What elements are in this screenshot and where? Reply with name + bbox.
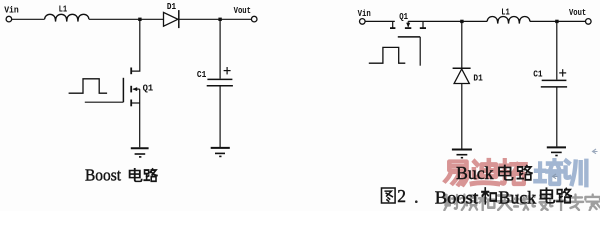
diode D1 (left)	[164, 10, 179, 28]
capacitor C1 (left, electrolytic)	[207, 67, 233, 86]
paragraph mark (gray, right edge)	[593, 149, 598, 154]
wire L1 to Vout (right)	[530, 20, 586, 22]
wire C1 to ground (right)	[556, 87, 558, 146]
svg-text:C1: C1	[533, 70, 543, 80]
terminal Vin (left circuit)	[6, 16, 12, 22]
square wave drive signal (left)	[69, 79, 108, 93]
wire D1 to ground (right)	[461, 84, 463, 149]
ground under C1 (right)	[547, 147, 566, 155]
wire output node to C1 (right)	[556, 21, 558, 79]
caption Boost 电路 (left)	[85, 166, 157, 185]
wire output node to C1 (left)	[219, 19, 221, 78]
inductor L1 (left)	[45, 14, 89, 21]
svg-text:Boost: Boost	[85, 166, 121, 185]
svg-text:D1: D1	[473, 74, 483, 84]
wire C1 to ground (left)	[219, 86, 221, 147]
wire junction to D1 (right)	[461, 21, 463, 68]
wire gate lead (left Q1)	[85, 101, 124, 103]
watermark tagline 射频和天线设计专家 (gray)	[444, 195, 600, 211]
svg-text:Vin: Vin	[4, 5, 19, 16]
wire L1 to D1 (left)	[89, 18, 164, 20]
watermark logo 易迪拓 (pink)	[445, 160, 525, 184]
wire D1 to Vout (left)	[179, 18, 252, 20]
svg-text:Boost: Boost	[435, 187, 478, 207]
wire drain riser (left Q1)	[132, 19, 140, 71]
svg-text:L1: L1	[501, 7, 510, 17]
svg-text:D1: D1	[167, 2, 177, 12]
transistor Q1 (left, N-MOSFET)	[123, 68, 139, 107]
square wave drive signal (right)	[369, 47, 406, 63]
terminal Vin (right circuit)	[360, 19, 366, 25]
terminal Vout (right circuit)	[586, 19, 592, 25]
wire Vin to L1 (left)	[12, 18, 45, 20]
node output junction (right)	[555, 20, 558, 23]
svg-text:C1: C1	[197, 70, 207, 80]
diode D1 (right, freewheeling)	[453, 68, 471, 83]
paragraph mark (gray, after Buck caption)	[553, 174, 558, 179]
svg-text:Buck: Buck	[456, 163, 494, 183]
node output junction (left)	[218, 18, 221, 21]
svg-text:Vout: Vout	[234, 5, 251, 16]
svg-text:2: 2	[397, 186, 406, 206]
wire Vin to Q1 (right)	[365, 20, 395, 22]
terminal Vout (left circuit)	[251, 16, 257, 22]
svg-text:Vin: Vin	[358, 9, 371, 19]
svg-text:Q1: Q1	[143, 84, 154, 94]
ground under D1 (right)	[452, 150, 472, 158]
svg-text:Q1: Q1	[399, 12, 408, 22]
watermark logo 培训 (blue)	[535, 160, 586, 185]
figure caption 图2. Boost 和 Buck 电路	[381, 186, 571, 208]
ground under C1 (left)	[211, 148, 230, 157]
node diode junction (right)	[460, 20, 463, 23]
wire Q1 to L1 (right)	[408, 20, 487, 22]
svg-text:Buck: Buck	[498, 187, 536, 207]
ground under Q1 (left)	[131, 148, 149, 157]
svg-text:Vout: Vout	[569, 7, 586, 18]
capacitor C1 (right, electrolytic)	[541, 69, 567, 87]
svg-text:L1: L1	[59, 5, 68, 15]
node switch/drain junction (left)	[138, 18, 141, 21]
wire source to ground (left Q1)	[139, 89, 141, 147]
caption Buck 电路 (right)	[456, 163, 532, 183]
inductor L1 (right)	[487, 17, 530, 24]
transistor Q1 (right, N-MOSFET rotated)	[390, 21, 426, 65]
